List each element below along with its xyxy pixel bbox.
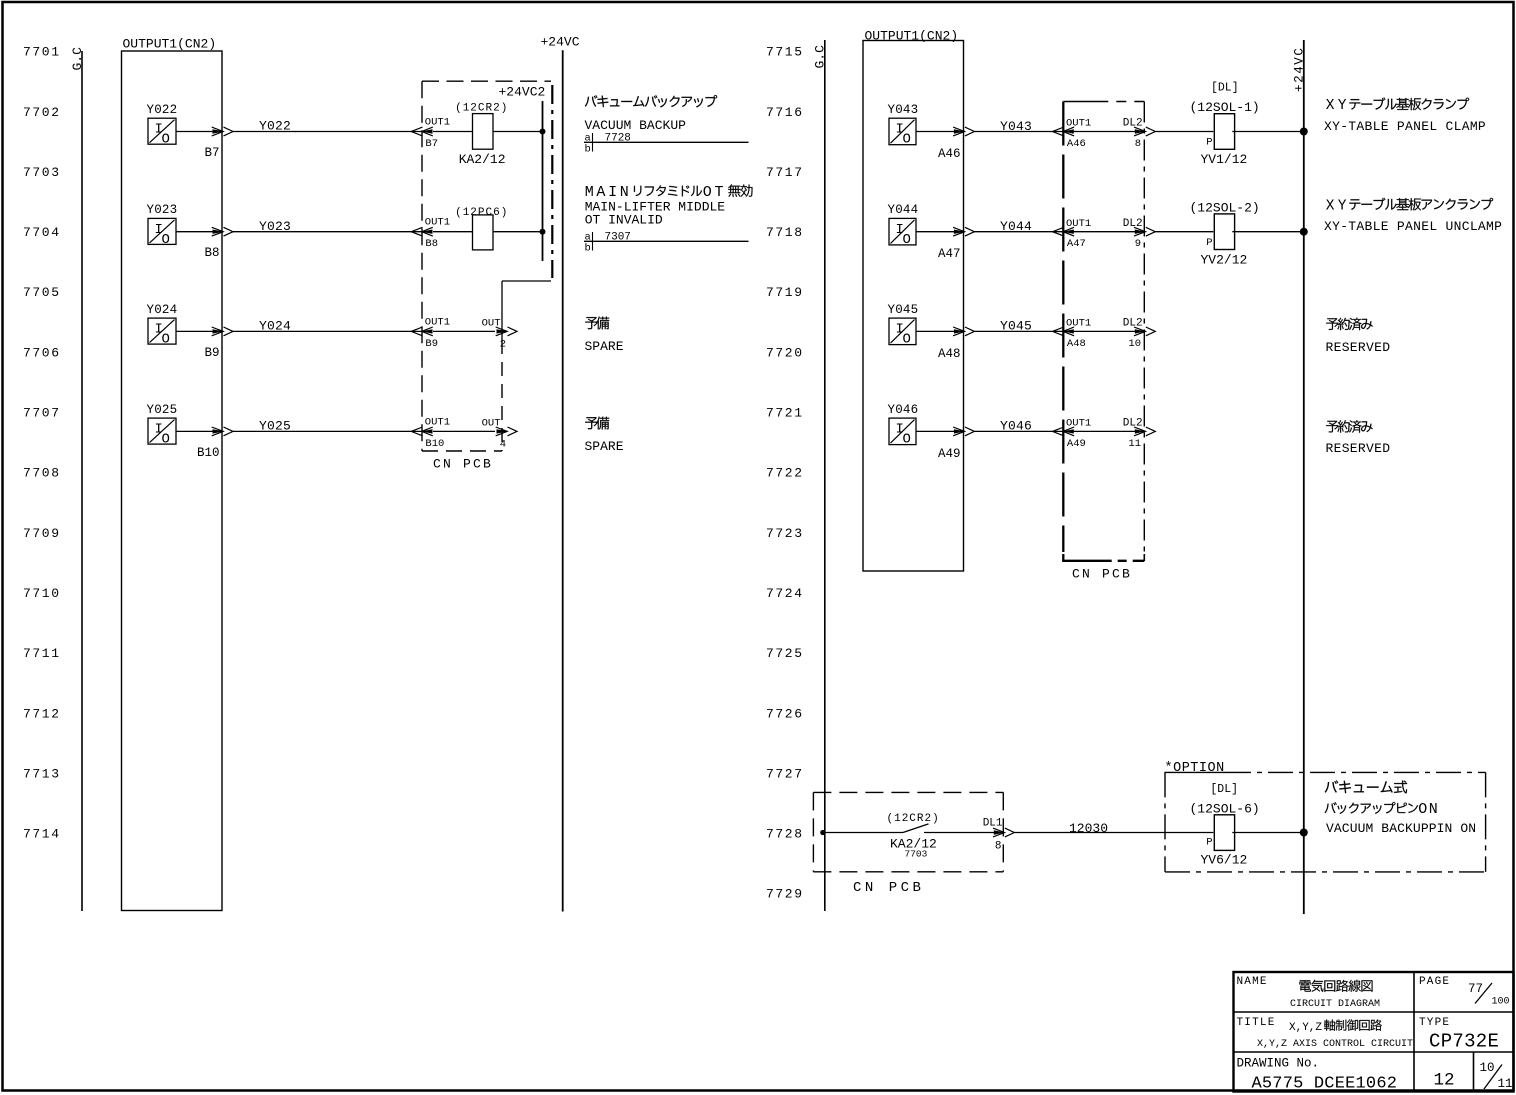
svg-text:YV6/12: YV6/12 (1201, 852, 1248, 867)
cross reference a/b 7728 (584, 133, 749, 156)
board boundary dash-dot at +24VC2 (551, 85, 553, 278)
node G.C right bus (813, 40, 828, 911)
connector OUTPUT1(CN2) right block (863, 28, 964, 571)
svg-text:VACUUM BACKUP: VACUUM BACKUP (585, 118, 687, 133)
CN PCB pin OUT1/A48 input arrow (1053, 318, 1092, 350)
svg-text:CN PCB: CN PCB (853, 880, 924, 896)
wire contact to pin DL1 (924, 832, 994, 834)
svg-text:+24VC2: +24VC2 (499, 84, 546, 99)
svg-text:TYPE: TYPE (1419, 1017, 1450, 1029)
svg-text:OUT1: OUT1 (425, 316, 450, 328)
pin A47 output arrow (938, 227, 974, 261)
right rung line numbers 7715-7729 (766, 45, 804, 902)
cross reference a/b 7307 (584, 232, 749, 255)
wire coil 12PC6 to +24VC2 (493, 231, 543, 233)
wire inside CN PCB row 7722 (1063, 430, 1144, 432)
wire net Y044 (974, 219, 1063, 234)
svg-text:[DL]: [DL] (1210, 783, 1238, 796)
svg-text:A49: A49 (1067, 438, 1086, 450)
svg-text:DL2: DL2 (1123, 418, 1143, 430)
title block sheet number 12 (1434, 1071, 1455, 1091)
svg-text:7725: 7725 (766, 646, 804, 661)
CN PCB pin DL2/8 output arrow (1123, 118, 1156, 150)
title block TITLE cell (1237, 1017, 1414, 1050)
svg-text:CN PCB: CN PCB (1072, 566, 1132, 581)
junction dot on +24VC2 row 7702 (540, 129, 546, 135)
svg-text:DL2: DL2 (1123, 218, 1143, 230)
CN PCB board boundary (left) (422, 81, 551, 451)
annotation: spare (row 7707) (585, 417, 624, 454)
title block PAGE cell 77/100 (1419, 976, 1510, 1007)
svg-text:G.C: G.C (70, 47, 85, 71)
svg-text:*OPTION: *OPTION (1165, 761, 1225, 776)
svg-text:G.C: G.C (813, 45, 828, 69)
wire Y025 from I/O to connector pin B10 (176, 430, 222, 432)
svg-text:77: 77 (1468, 982, 1483, 996)
svg-text:(12SOL-6): (12SOL-6) (1190, 801, 1260, 816)
pin B7 output arrow (204, 127, 233, 160)
svg-text:7727: 7727 (766, 766, 804, 781)
svg-text:7711: 7711 (23, 646, 61, 661)
svg-text:PAGE: PAGE (1419, 976, 1450, 988)
svg-text:7708: 7708 (23, 466, 61, 481)
I/O module Y024 (147, 303, 178, 348)
junction dot on G.C row 7728 (820, 830, 825, 835)
svg-text:OUT1: OUT1 (425, 416, 450, 428)
label CN PCB (bottom board) (853, 880, 924, 896)
wire OUT1 to spare OUT/2 (433, 330, 495, 332)
title block NAME cell (1237, 976, 1381, 1010)
svg-text:b: b (585, 243, 591, 255)
svg-text:9: 9 (1135, 238, 1141, 250)
CN PCB pin DL2/10 output arrow (1123, 318, 1156, 350)
pin A46 output arrow (938, 127, 974, 161)
svg-text:X: X (1326, 198, 1335, 214)
annotation: reserved (row 7721) (1326, 420, 1391, 456)
junction dot on +24VC row 7728 (1300, 829, 1308, 837)
title block sheet 10/11 (1480, 1061, 1513, 1091)
wire Y045 from I/O to connector pin A48 (916, 330, 963, 332)
svg-text:7718: 7718 (766, 225, 804, 240)
svg-text:7703: 7703 (23, 165, 61, 180)
I/O module Y045 (888, 303, 919, 348)
svg-text:OUT1: OUT1 (1066, 218, 1091, 230)
svg-text:KA2/12: KA2/12 (459, 152, 506, 167)
solenoid YV1/12 (12SOL-1) (1190, 82, 1260, 168)
svg-text:7706: 7706 (23, 345, 61, 360)
svg-text:7704: 7704 (23, 225, 61, 240)
svg-text:4: 4 (500, 439, 506, 451)
pin B9 output arrow (204, 327, 233, 360)
svg-text:B8: B8 (204, 246, 219, 260)
svg-text:YV1/12: YV1/12 (1201, 152, 1248, 167)
svg-text:TITLE: TITLE (1237, 1017, 1276, 1029)
svg-text:7701: 7701 (23, 45, 61, 60)
svg-text:O: O (162, 232, 170, 248)
svg-text:B9: B9 (425, 338, 438, 350)
svg-text:O: O (162, 432, 170, 448)
CN PCB spare output OUT/4 arrow (482, 417, 517, 450)
svg-text:A48: A48 (938, 347, 961, 361)
svg-text:X,Y,Z AXIS CONTROL CIRCUIT: X,Y,Z AXIS CONTROL CIRCUIT (1257, 1039, 1413, 1050)
svg-text:XY-TABLE PANEL UNCLAMP: XY-TABLE PANEL UNCLAMP (1324, 219, 1502, 234)
svg-text:OUT: OUT (482, 417, 501, 429)
annotation: XY-table panel unclamp (1324, 198, 1502, 234)
svg-text:ON: ON (1418, 801, 1439, 818)
wire inside CN PCB row 7720 (1063, 330, 1144, 332)
svg-text:O: O (903, 132, 911, 148)
I/O module Y022 (147, 103, 178, 148)
annotation: vacuum backup pin on (1325, 780, 1476, 835)
wire net 12030 (1014, 821, 1213, 836)
node G.C left bus (70, 47, 85, 911)
title block frame (1234, 972, 1514, 1092)
svg-text:X: X (1326, 98, 1335, 114)
svg-text:+24VC: +24VC (541, 34, 580, 49)
CN PCB pin OUT1/A47 input arrow (1053, 218, 1092, 250)
svg-text:RESERVED: RESERVED (1326, 441, 1391, 456)
svg-text:Y023: Y023 (147, 203, 178, 217)
svg-text:7715: 7715 (766, 45, 804, 60)
wire solenoid YV2/12 to +24VC (1232, 231, 1304, 233)
svg-text:A5775 DCEE1062: A5775 DCEE1062 (1252, 1075, 1398, 1094)
svg-text:Y045: Y045 (888, 303, 919, 317)
wire solenoid YV1/12 to +24VC (1232, 131, 1304, 133)
CN PCB pin OUT1/B7 input arrow (411, 117, 450, 151)
svg-text:B8: B8 (425, 238, 438, 250)
svg-text:(12SOL-1): (12SOL-1) (1190, 100, 1260, 115)
wire inside CN PCB row 7716 (1063, 131, 1144, 133)
pin A49 output arrow (938, 427, 974, 461)
solenoid YV6/12 (12SOL-6) (1190, 783, 1260, 868)
svg-text:7729: 7729 (766, 887, 804, 902)
svg-text:7707: 7707 (23, 406, 61, 421)
svg-text:OUTPUT1(CN2): OUTPUT1(CN2) (123, 37, 217, 52)
annotation: XY-table panel clamp (1324, 97, 1486, 133)
svg-text:OUT1: OUT1 (425, 117, 450, 129)
wire Y043 from I/O to connector pin A46 (916, 131, 963, 133)
annotation: reserved (row 7719) (1326, 318, 1391, 355)
annotation: main-lifter middle OT invalid (585, 184, 753, 228)
svg-text:7712: 7712 (23, 706, 61, 721)
wire net Y025 (233, 419, 422, 434)
svg-text:O: O (903, 332, 911, 348)
CN PCB pin OUT1/A49 input arrow (1053, 418, 1092, 450)
wire DL2 to solenoid YV2/12 (1155, 231, 1213, 233)
svg-text:NAME: NAME (1237, 976, 1268, 988)
svg-text:12: 12 (1434, 1071, 1455, 1091)
svg-text:Y025: Y025 (147, 403, 178, 417)
svg-text:OT INVALID: OT INVALID (585, 213, 663, 228)
power rail +24VC (left section) (541, 34, 580, 911)
svg-text:MAIN: MAIN (585, 184, 632, 201)
connector OUTPUT1(CN2) left block (122, 37, 223, 911)
label CN PCB (right board) (1072, 566, 1132, 581)
annotation: spare (row 7705) (585, 316, 624, 354)
svg-text:Y022: Y022 (147, 103, 178, 117)
svg-text:OUT1: OUT1 (1066, 118, 1091, 130)
svg-text:B7: B7 (425, 138, 438, 150)
label CN PCB (left board) (433, 456, 493, 471)
wire net Y024 (233, 319, 422, 334)
wire solenoid YV6 to +24VC (1232, 832, 1304, 834)
svg-text:7716: 7716 (766, 105, 804, 120)
solenoid YV2/12 (12SOL-2) (1190, 200, 1260, 267)
wire OUT1 to spare OUT/4 (433, 430, 495, 432)
CN PCB pin DL1/8 output arrow (983, 817, 1015, 852)
svg-text:RESERVED: RESERVED (1326, 340, 1391, 355)
svg-text:A47: A47 (938, 247, 961, 261)
svg-text:VACUUM BACKUPPIN ON: VACUUM BACKUPPIN ON (1326, 821, 1476, 836)
svg-text:O: O (162, 332, 170, 348)
pin B8 output arrow (204, 227, 233, 260)
CN PCB pin OUT1/B10 input arrow (411, 416, 450, 450)
svg-text:SPARE: SPARE (585, 439, 624, 454)
svg-text:7721: 7721 (766, 406, 804, 421)
left rung line numbers 7701-7714 (23, 45, 61, 842)
wire net Y043 (974, 119, 1063, 134)
svg-text:X,Y,Z: X,Y,Z (1289, 1022, 1322, 1034)
svg-text:XY-TABLE PANEL CLAMP: XY-TABLE PANEL CLAMP (1324, 119, 1486, 134)
relay coil KA2/12 (12CR2) (455, 103, 508, 168)
relay contact KA2/12 (12CR2) NO (887, 813, 940, 859)
svg-text:A47: A47 (1067, 238, 1086, 250)
svg-text:P: P (1206, 137, 1212, 149)
svg-text:10: 10 (1128, 338, 1141, 350)
wire OUT1.B7 to coil KA2 (433, 131, 473, 133)
I/O module Y044 (888, 203, 919, 248)
svg-text:Y024: Y024 (147, 303, 178, 317)
option boundary *OPTION (1165, 761, 1486, 872)
power rail +24VC2 (499, 84, 546, 261)
svg-text:7724: 7724 (766, 586, 804, 601)
wire net Y022 (233, 119, 422, 134)
I/O module Y023 (147, 203, 178, 248)
svg-text:O: O (903, 432, 911, 448)
svg-text:A46: A46 (1067, 138, 1086, 150)
CN PCB board boundary (right inner) (1062, 102, 1144, 562)
svg-text:Y044: Y044 (888, 203, 919, 217)
svg-text:7717: 7717 (766, 165, 804, 180)
CN PCB pin DL2/9 output arrow (1123, 218, 1156, 250)
junction dot on +24VC row 7716 (1300, 128, 1308, 136)
wire OUT1.B8 to coil 12PC6 (433, 231, 473, 233)
wire Y044 from I/O to connector pin A47 (916, 231, 963, 233)
svg-text:100: 100 (1492, 997, 1510, 1008)
wire net Y023 (233, 219, 422, 234)
svg-text:P: P (1206, 836, 1212, 848)
wire Y046 from I/O to connector pin A49 (916, 430, 963, 432)
svg-text:CIRCUIT DIAGRAM: CIRCUIT DIAGRAM (1290, 999, 1380, 1010)
svg-text:P: P (1206, 237, 1212, 249)
svg-text:11: 11 (1128, 438, 1141, 450)
wire inside CN PCB row 7718 (1063, 231, 1144, 233)
svg-text:10: 10 (1480, 1061, 1495, 1075)
junction dot on +24VC2 row 7704 (540, 229, 546, 235)
title block TYPE cell CP732E (1419, 1017, 1499, 1052)
svg-text:7726: 7726 (766, 706, 804, 721)
svg-text:OUT1: OUT1 (1066, 418, 1091, 430)
wire net Y045 (974, 319, 1063, 334)
wire Y024 from I/O to connector pin B9 (176, 330, 222, 332)
svg-text:(12SOL-2): (12SOL-2) (1190, 200, 1260, 215)
svg-text:DRAWING No.: DRAWING No. (1237, 1057, 1320, 1071)
annotation: vacuum backup (585, 95, 718, 133)
svg-text:7714: 7714 (23, 827, 61, 842)
pin A48 output arrow (938, 327, 974, 361)
wire Y022 from I/O to connector pin B7 (176, 131, 222, 133)
svg-text:A49: A49 (938, 447, 961, 461)
svg-text:DL2: DL2 (1123, 118, 1143, 130)
svg-text:CP732E: CP732E (1429, 1031, 1499, 1053)
svg-text:Y046: Y046 (888, 403, 919, 417)
junction dot on +24VC row 7718 (1300, 228, 1308, 236)
svg-text:O: O (162, 132, 170, 148)
svg-text:CN PCB: CN PCB (433, 456, 493, 471)
svg-text:7719: 7719 (766, 285, 804, 300)
svg-text:7728: 7728 (766, 827, 804, 842)
svg-text:O: O (903, 232, 911, 248)
svg-text:A48: A48 (1067, 338, 1086, 350)
svg-text:(12CR2): (12CR2) (455, 103, 508, 115)
svg-text:b: b (585, 144, 591, 156)
wire coil KA2 to +24VC2 (493, 131, 543, 133)
wire net Y046 (974, 419, 1063, 434)
I/O module Y046 (888, 403, 919, 448)
CN PCB pin OUT1/B9 input arrow (411, 316, 450, 350)
svg-text:OUT1: OUT1 (425, 217, 450, 229)
svg-text:[DL]: [DL] (1211, 82, 1239, 95)
title block DRAWING No. cell (1237, 1057, 1398, 1094)
svg-text:DL1: DL1 (983, 817, 1003, 829)
svg-text:YV2/12: YV2/12 (1201, 252, 1248, 267)
svg-text:Y: Y (1338, 198, 1347, 214)
CN PCB pin DL2/11 output arrow (1123, 418, 1156, 450)
CN PCB pin OUT1/A46 input arrow (1053, 118, 1092, 150)
wire Y023 from I/O to connector pin B8 (176, 231, 222, 233)
I/O module Y025 (147, 403, 178, 448)
CN PCB spare output OUT/2 arrow (482, 317, 517, 350)
svg-text:11: 11 (1498, 1077, 1513, 1091)
svg-text:B10: B10 (197, 446, 220, 460)
svg-text:7720: 7720 (766, 345, 804, 360)
wire DL2 to solenoid YV1/12 (1155, 131, 1213, 133)
svg-text:7702: 7702 (23, 105, 61, 120)
svg-text:7723: 7723 (766, 526, 804, 541)
coil (12PC6) (455, 207, 508, 250)
svg-text:7703: 7703 (905, 848, 928, 859)
svg-text:7713: 7713 (23, 766, 61, 781)
svg-text:B9: B9 (204, 346, 219, 360)
svg-text:SPARE: SPARE (585, 339, 624, 354)
svg-text:B10: B10 (425, 438, 444, 450)
CN PCB pin OUT1/B8 input arrow (411, 217, 450, 251)
I/O module Y043 (888, 103, 919, 148)
CN PCB board boundary (bottom) (813, 792, 1003, 871)
pin B10 output arrow (197, 427, 233, 460)
svg-text:Y: Y (1338, 98, 1347, 114)
wire G.C to contact KA2 (823, 832, 903, 834)
svg-text:7722: 7722 (766, 466, 804, 481)
svg-text:OT: OT (703, 184, 726, 201)
svg-text:7710: 7710 (23, 586, 61, 601)
svg-text:8: 8 (1135, 138, 1141, 150)
power rail +24VC (right section) (1293, 40, 1307, 914)
svg-text:2: 2 (500, 339, 506, 351)
wire jog +24VC2 boundary to CN PCB edge (502, 280, 551, 282)
svg-text:OUT1: OUT1 (1066, 318, 1091, 330)
svg-text:(12CR2): (12CR2) (887, 813, 940, 825)
svg-text:Y043: Y043 (888, 103, 919, 117)
svg-text:A46: A46 (938, 147, 961, 161)
svg-text:OUT: OUT (482, 317, 501, 329)
svg-text:7709: 7709 (23, 526, 61, 541)
svg-text:7705: 7705 (23, 285, 61, 300)
svg-text:B7: B7 (204, 146, 219, 160)
svg-text:DL2: DL2 (1123, 318, 1143, 330)
svg-text:8: 8 (995, 841, 1002, 853)
svg-text:12030: 12030 (1069, 821, 1108, 836)
